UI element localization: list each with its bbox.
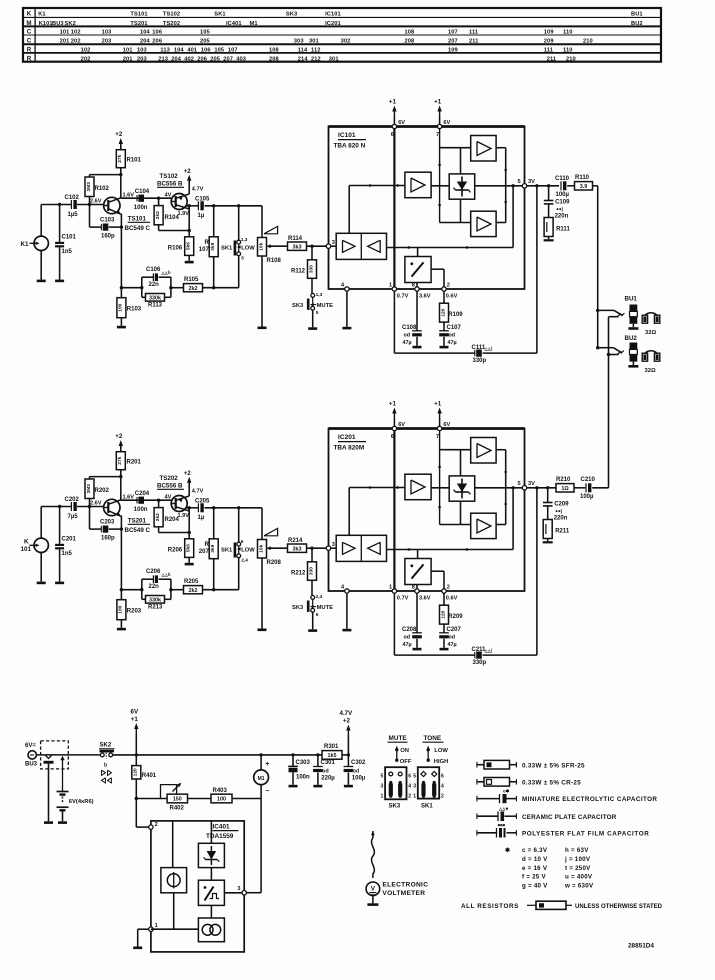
svg-text:1Ω: 1Ω xyxy=(561,486,569,492)
svg-text:w = 630V: w = 630V xyxy=(564,883,594,890)
potentiometer R208 xyxy=(258,540,282,629)
wire bridge bottom xyxy=(440,501,471,524)
junction R402 branch xyxy=(135,797,138,800)
internal diode block xyxy=(449,476,475,501)
svg-text:R102: R102 xyxy=(95,186,110,192)
svg-text:330p: 330p xyxy=(473,358,487,364)
svg-text:R101: R101 xyxy=(127,158,142,164)
resistor R106 xyxy=(168,237,194,261)
junction R-feedback node xyxy=(157,197,160,200)
svg-text:HIGH: HIGH xyxy=(434,759,449,765)
svg-text:120: 120 xyxy=(440,610,446,618)
svg-text:IC101: IC101 xyxy=(325,11,341,17)
wire bridge top xyxy=(440,450,471,476)
junction collector/R xyxy=(188,531,191,534)
svg-text:213: 213 xyxy=(158,56,168,62)
BU3 dashed outline xyxy=(41,741,69,769)
svg-text:0.7V: 0.7V xyxy=(397,293,409,299)
wire mute bottom to pin8 xyxy=(416,585,418,589)
svg-text:100: 100 xyxy=(118,303,124,311)
svg-text:R205: R205 xyxy=(184,579,199,585)
svg-text:301: 301 xyxy=(329,56,339,62)
capacitor C207 xyxy=(439,624,461,648)
headphones icon BU1 xyxy=(642,313,660,323)
svg-text:od: od xyxy=(404,333,411,339)
svg-text:210: 210 xyxy=(583,38,593,44)
svg-text:C301: C301 xyxy=(321,760,336,766)
capacitor C102 series xyxy=(65,195,80,218)
svg-text:R: R xyxy=(204,542,209,548)
svg-text:209: 209 xyxy=(544,38,554,44)
ground under battery xyxy=(58,821,67,824)
table row 2 entries xyxy=(39,21,643,27)
svg-text:6V: 6V xyxy=(131,709,139,716)
wire mute block to pin3 xyxy=(224,892,242,894)
svg-text:M1: M1 xyxy=(258,776,265,782)
svg-text:R104: R104 xyxy=(165,215,180,221)
svg-text:R105: R105 xyxy=(184,277,199,283)
wire buffer to A1 xyxy=(349,486,405,535)
svg-text:R113: R113 xyxy=(148,303,163,309)
svg-text:7: 7 xyxy=(436,132,439,138)
svg-text:△△h: △△h xyxy=(161,270,171,275)
capacitor C303 xyxy=(288,753,310,785)
IC101 pin 3 input xyxy=(326,240,336,249)
resistor R109 xyxy=(440,291,464,322)
headphones icon BU2 xyxy=(642,351,660,361)
svg-text:o✽: o✽ xyxy=(503,789,510,794)
wire A3 out up xyxy=(496,488,507,525)
table row 1 entries xyxy=(38,11,642,17)
wire BU3 sleeve to ground xyxy=(48,764,50,822)
svg-text:+2: +2 xyxy=(115,131,123,138)
wire emitter to +2 xyxy=(188,180,190,195)
svg-text:2k2: 2k2 xyxy=(155,211,161,219)
wire jack to input line xyxy=(41,507,71,539)
IC101 pin 6 supply xyxy=(391,120,406,138)
ground left of battery xyxy=(44,821,53,824)
battery 6V xyxy=(57,792,94,822)
svg-text:TBA 820M: TBA 820M xyxy=(334,445,365,452)
ground under pin4 xyxy=(342,327,351,330)
resistor R203 xyxy=(117,600,142,628)
svg-text:C108: C108 xyxy=(402,325,417,331)
svg-text:h = 63V: h = 63V xyxy=(565,847,589,854)
wire R401 to pin2 xyxy=(136,779,148,827)
svg-text:SK2: SK2 xyxy=(65,21,76,27)
svg-text:+2: +2 xyxy=(184,470,192,477)
svg-text:C208: C208 xyxy=(402,627,417,633)
svg-text:△△■: △△■ xyxy=(498,806,508,811)
svg-text:u = 400V: u = 400V xyxy=(565,874,593,881)
svg-text:1µ: 1µ xyxy=(198,213,205,219)
amplifier block A2 top xyxy=(471,136,496,162)
svg-text:3k9: 3k9 xyxy=(210,544,216,552)
svg-text:208: 208 xyxy=(405,38,415,44)
junction collector feed xyxy=(119,475,122,478)
resistor R206 xyxy=(168,539,194,563)
svg-text:IC401: IC401 xyxy=(213,823,230,830)
svg-text:C: C xyxy=(27,37,32,44)
IC401 pin 3 xyxy=(237,886,246,895)
jack BU2 switch lever xyxy=(598,348,624,354)
IC401 pin 1 xyxy=(149,923,158,931)
junction R-branch xyxy=(212,204,215,207)
svg-text:R108: R108 xyxy=(267,258,282,264)
svg-text:3: 3 xyxy=(413,783,416,789)
junction mute branch xyxy=(310,547,313,550)
svg-text:214: 214 xyxy=(298,56,309,62)
power +2 arrow over R201 xyxy=(115,433,123,452)
wire jack ground lead xyxy=(40,251,42,280)
wire C-to-base2 xyxy=(144,499,171,501)
svg-text:C104: C104 xyxy=(135,189,150,195)
svg-text:8: 8 xyxy=(412,584,415,590)
label IC101 xyxy=(334,132,367,149)
ground under jack xyxy=(37,280,46,283)
svg-text:100n: 100n xyxy=(296,775,310,781)
table row labels xyxy=(26,10,31,62)
svg-text:22n: 22n xyxy=(149,584,160,590)
main supply rail xyxy=(113,754,322,756)
svg-text:107: 107 xyxy=(228,47,238,53)
internal diode block xyxy=(449,174,475,199)
wire input line to base xyxy=(77,204,104,206)
svg-text:R114: R114 xyxy=(288,236,303,242)
svg-text:BU1: BU1 xyxy=(631,11,643,17)
svg-text:211: 211 xyxy=(469,38,478,44)
resistor R201 xyxy=(116,445,141,500)
power connector BU3 xyxy=(25,743,38,768)
svg-text:K1: K1 xyxy=(38,11,45,17)
svg-text:4.7V: 4.7V xyxy=(340,710,354,717)
svg-text:■■■: ■■■ xyxy=(498,823,506,828)
all resistors note xyxy=(461,901,663,910)
svg-text:K101: K101 xyxy=(39,21,53,27)
junction output/bootstrap xyxy=(535,486,538,489)
svg-text:SK1: SK1 xyxy=(214,11,225,17)
svg-text:7: 7 xyxy=(436,434,439,440)
svg-text:403: 403 xyxy=(236,56,246,62)
svg-text:TS202: TS202 xyxy=(160,475,179,482)
jack BU2 contact xyxy=(607,351,621,356)
svg-text:R402: R402 xyxy=(170,805,185,811)
svg-text:✽: ✽ xyxy=(505,847,510,854)
svg-text:2: 2 xyxy=(447,584,450,590)
svg-text:5: 5 xyxy=(241,256,244,262)
ground under SK3 xyxy=(308,629,317,632)
resistor R112 xyxy=(291,246,317,293)
IC401 pin 2 xyxy=(149,822,158,830)
svg-text:C206: C206 xyxy=(146,569,161,575)
svg-text:5: 5 xyxy=(381,773,384,779)
svg-text:f = 25 V: f = 25 V xyxy=(522,874,546,881)
resistor R101 xyxy=(116,143,141,198)
svg-text:102: 102 xyxy=(81,47,91,53)
capacitor C201 shunt xyxy=(55,507,76,582)
resistor R213 xyxy=(142,590,171,611)
wire to volume pot xyxy=(261,206,263,238)
svg-text:150: 150 xyxy=(173,797,182,803)
wire mute right to pin2 xyxy=(431,571,444,589)
capacitor C301 xyxy=(313,753,335,785)
junction collector feed xyxy=(119,173,122,176)
wire +1 to pin6 xyxy=(393,419,395,427)
capacitor C111 bootstrap xyxy=(472,186,537,364)
svg-text:od: od xyxy=(322,768,328,774)
wire emitter to +2 xyxy=(188,482,190,497)
wire pin4 to ground xyxy=(346,291,348,327)
svg-text:220µ: 220µ xyxy=(321,775,335,781)
resistor R202 xyxy=(85,477,110,507)
capacitor C106 xyxy=(142,267,171,288)
ground under R203 xyxy=(117,628,126,631)
svg-text:1: 1 xyxy=(413,793,416,799)
table row 5 entries xyxy=(81,47,573,53)
svg-text:M: M xyxy=(26,20,31,27)
switch SK1 xyxy=(221,539,255,564)
svg-text:330k: 330k xyxy=(149,598,161,604)
svg-text:b: b xyxy=(104,763,107,769)
junction output node xyxy=(188,204,191,207)
wire switch top to line xyxy=(238,206,240,240)
svg-text:R106: R106 xyxy=(168,246,183,252)
wire +1 to pin6 xyxy=(393,117,395,125)
svg-text:C110: C110 xyxy=(555,176,570,182)
svg-text:C105: C105 xyxy=(195,197,210,203)
svg-text:3V: 3V xyxy=(528,481,535,487)
wire current source down xyxy=(173,893,175,929)
svg-text:210: 210 xyxy=(566,56,576,62)
IC201 pin 6 supply xyxy=(391,422,406,440)
junction emitter/C xyxy=(120,527,123,530)
amplifier block A1 xyxy=(405,172,431,198)
svg-text:UNLESS OTHERWISE STATED: UNLESS OTHERWISE STATED xyxy=(575,904,663,910)
svg-text:od: od xyxy=(449,333,456,339)
svg-text:R213: R213 xyxy=(148,605,163,611)
svg-text:+1: +1 xyxy=(131,716,139,723)
svg-text:BU2: BU2 xyxy=(631,21,643,27)
svg-text:od: od xyxy=(449,635,456,641)
IC101 pin 1 xyxy=(389,282,397,291)
junction base node xyxy=(88,505,91,508)
svg-text:BC549 C: BC549 C xyxy=(125,225,151,232)
wire collector row xyxy=(121,197,139,199)
svg-text:LOW: LOW xyxy=(434,748,448,754)
wire feedback xyxy=(387,486,515,551)
svg-text:100µ: 100µ xyxy=(352,775,366,781)
svg-text:VOLTMETER: VOLTMETER xyxy=(382,890,425,897)
amplifier block A1 xyxy=(405,474,431,500)
resistor R111 zobel xyxy=(544,218,570,240)
svg-text:R112: R112 xyxy=(291,269,306,275)
svg-text:C204: C204 xyxy=(135,491,150,497)
svg-text:R103: R103 xyxy=(127,307,142,313)
bar end R111 xyxy=(544,239,554,241)
svg-text:C202: C202 xyxy=(65,497,80,503)
svg-text:+1: +1 xyxy=(389,99,397,106)
capacitor C105 series xyxy=(186,197,263,220)
svg-text:207: 207 xyxy=(199,549,210,555)
wire tone to switch xyxy=(203,256,239,288)
resistor R110 xyxy=(567,175,598,190)
svg-text:C109: C109 xyxy=(555,200,570,206)
amplifier block A3 bottom xyxy=(471,513,496,538)
IC101 pin 7 xyxy=(436,120,451,138)
svg-text:100: 100 xyxy=(217,797,226,803)
svg-text:R204: R204 xyxy=(165,517,180,523)
BU3 switch contact xyxy=(60,756,64,792)
svg-text:1: 1 xyxy=(389,282,392,288)
wire meter to pin3 xyxy=(246,799,261,893)
wire pin1 to ground xyxy=(138,929,149,946)
svg-text:202: 202 xyxy=(71,38,81,44)
wire pin1 to bootstrap row xyxy=(394,291,475,353)
svg-text:LOW: LOW xyxy=(241,245,255,251)
svg-text:K1: K1 xyxy=(21,241,30,248)
ground under C201 xyxy=(55,582,64,585)
wire R-top branch xyxy=(90,174,121,176)
svg-text:SK2: SK2 xyxy=(100,743,112,749)
power +2 arrow over R101 xyxy=(115,131,123,150)
junction base node xyxy=(88,203,91,206)
wire R403 to meter xyxy=(232,798,261,800)
svg-text:SK3: SK3 xyxy=(286,11,297,17)
ground under R206 xyxy=(185,563,194,566)
power +1 arrow pin7 xyxy=(434,401,442,420)
svg-text:6: 6 xyxy=(241,539,244,545)
svg-text:BU3: BU3 xyxy=(25,762,38,768)
IC201 pin 7 xyxy=(436,422,451,440)
svg-text:3.6V: 3.6V xyxy=(419,293,431,299)
svg-text:212: 212 xyxy=(311,56,321,62)
label IC201 xyxy=(334,434,367,451)
wire pin5 to output net xyxy=(527,487,556,489)
wire block chain down xyxy=(210,905,212,918)
svg-text:47µ: 47µ xyxy=(403,340,412,346)
svg-text:od: od xyxy=(404,635,411,641)
potentiometer R108 xyxy=(258,238,282,327)
svg-text:10k: 10k xyxy=(258,544,264,552)
svg-text:1.9V: 1.9V xyxy=(178,211,190,217)
IC101 pin 2 xyxy=(442,282,450,291)
wire tone branch xyxy=(121,589,141,591)
wire internal rail pin6 down xyxy=(393,431,395,589)
svg-text:6V: 6V xyxy=(443,422,450,428)
wire C-to-base2 xyxy=(144,197,171,199)
svg-text:32Ω: 32Ω xyxy=(645,368,656,374)
capacitor C104 series xyxy=(134,189,150,211)
capacitor C202 series xyxy=(65,497,80,520)
svg-text:2.6V: 2.6V xyxy=(90,199,102,205)
wire tone branch xyxy=(121,287,141,289)
svg-text:M1: M1 xyxy=(250,21,258,27)
oscillator block xyxy=(198,918,224,942)
IC401 internal wire left xyxy=(172,821,174,868)
svg-text:102: 102 xyxy=(71,30,81,36)
switch SK1 xyxy=(221,237,255,262)
svg-text:t = 250V: t = 250V xyxy=(565,865,591,872)
transistor TS201 xyxy=(104,499,122,517)
svg-text:BU1: BU1 xyxy=(625,296,638,303)
svg-text:204: 204 xyxy=(140,38,151,44)
ground under jack xyxy=(37,582,46,585)
svg-text:1.9V: 1.9V xyxy=(178,513,190,519)
svg-text:R208: R208 xyxy=(267,560,282,566)
ground under BU2 xyxy=(628,365,638,368)
svg-text:0.6V: 0.6V xyxy=(446,293,458,299)
switch SK3 mute xyxy=(292,594,333,618)
wire SK3 to ground xyxy=(312,612,314,629)
svg-text:C101: C101 xyxy=(62,235,77,241)
svg-text:330: 330 xyxy=(308,567,314,575)
svg-text:109: 109 xyxy=(448,47,458,53)
wire internal pin7 down xyxy=(438,431,441,525)
svg-text:207: 207 xyxy=(223,56,233,62)
IC201 pin 2 xyxy=(442,584,450,593)
svg-text:R110: R110 xyxy=(575,175,590,181)
svg-text:0.33W ± 5% SFR-25: 0.33W ± 5% SFR-25 xyxy=(522,762,585,769)
svg-text:108: 108 xyxy=(405,30,415,36)
svg-text:2: 2 xyxy=(155,822,158,828)
svg-text:C205: C205 xyxy=(195,499,210,505)
svg-text:120: 120 xyxy=(440,308,446,316)
svg-text:105: 105 xyxy=(200,30,210,36)
svg-text:TS102: TS102 xyxy=(160,173,179,180)
svg-text:203: 203 xyxy=(137,56,147,62)
svg-text:2: 2 xyxy=(408,793,411,799)
top reference table xyxy=(23,8,661,62)
amplifier block A3 bottom xyxy=(471,211,496,236)
wire pin4 to ground xyxy=(346,593,348,629)
label TS102 type xyxy=(157,173,184,188)
svg-text:27k: 27k xyxy=(117,456,123,464)
svg-text:110: 110 xyxy=(563,47,572,53)
svg-text:330k: 330k xyxy=(149,296,161,302)
wire zener top xyxy=(210,821,212,843)
resistor R403 xyxy=(211,788,232,803)
svg-text:4.7V: 4.7V xyxy=(192,489,204,495)
junction output node xyxy=(188,506,191,509)
svg-text:5: 5 xyxy=(413,773,416,779)
svg-text:6V: 6V xyxy=(398,120,405,126)
svg-text:SK3: SK3 xyxy=(292,303,304,309)
svg-text:109: 109 xyxy=(544,30,554,36)
svg-text:ALL RESISTORS: ALL RESISTORS xyxy=(461,903,519,910)
wire internal pin7 down xyxy=(438,129,441,223)
wire R110 down to jack xyxy=(597,186,599,311)
wire switch top to line xyxy=(238,508,240,542)
svg-text:R202: R202 xyxy=(95,488,110,494)
svg-text:1µ: 1µ xyxy=(198,515,205,521)
capacitor C109 zobel xyxy=(544,184,570,219)
svg-text:203: 203 xyxy=(102,38,112,44)
junction input line / C101 xyxy=(58,203,61,206)
svg-text:TS101: TS101 xyxy=(130,11,147,17)
wire emitter down xyxy=(120,516,122,600)
svg-text:V: V xyxy=(371,885,376,892)
svg-text:1,3: 1,3 xyxy=(241,237,248,243)
input buffer double triangle xyxy=(336,233,386,259)
connector BU2 body xyxy=(625,335,638,365)
junction R-feedback node xyxy=(157,499,160,502)
label electronic voltmeter xyxy=(382,882,428,898)
wire R301 to +2 node xyxy=(342,754,348,756)
svg-text:1µ5: 1µ5 xyxy=(68,212,79,218)
power +2 arrow over emitter xyxy=(184,168,192,187)
ground under C303 xyxy=(289,785,298,788)
svg-text:TS201: TS201 xyxy=(130,21,147,27)
